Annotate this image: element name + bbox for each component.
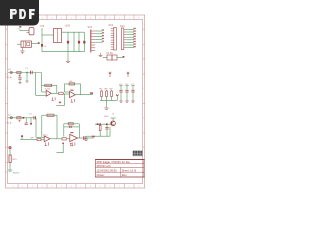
svg-text:AGND: AGND	[13, 171, 20, 174]
fuse F1	[103, 52, 125, 60]
svg-text:F1 5A: F1 5A	[107, 52, 114, 55]
ground C10	[26, 81, 29, 82]
svg-text:SV3: SV3	[120, 25, 125, 28]
svg-text:3: 3	[42, 17, 44, 19]
resistor R1	[17, 71, 21, 76]
label IC1B	[70, 90, 73, 91]
svg-text:IN_B: IN_B	[7, 123, 12, 125]
title block text	[97, 160, 137, 177]
svg-text:Drawn:: Drawn:	[97, 173, 105, 177]
svg-text:IN_A: IN_A	[7, 76, 12, 79]
resistor R4 feedback	[69, 83, 75, 85]
wire opamp3 input drop	[36, 118, 44, 138]
svg-text:T1: T1	[112, 114, 115, 116]
svg-text:6: 6	[71, 17, 73, 19]
wire opamp2 output	[75, 94, 93, 96]
svg-text:C1: C1	[25, 68, 29, 70]
wire buzzer out	[17, 42, 40, 44]
wire bus gnd stub	[67, 52, 69, 61]
svg-text:8: 8	[90, 17, 92, 19]
svg-text:R10: R10	[105, 116, 110, 118]
supply +5V arrow left	[109, 72, 111, 77]
connector SV2	[109, 24, 117, 50]
resistor R5	[17, 117, 21, 122]
connector SV3	[120, 25, 126, 50]
svg-text:X2: X2	[8, 114, 11, 116]
frame column labels	[6, 17, 145, 188]
terminal X1	[10, 71, 12, 73]
terminal X3	[9, 146, 11, 148]
ground bus	[66, 61, 70, 62]
resistor R15	[9, 155, 17, 163]
ground SV1	[99, 53, 103, 57]
capacitor C8	[105, 124, 108, 136]
svg-text:Rev:: Rev:	[122, 173, 128, 177]
op-amp IC1D	[70, 134, 78, 141]
wire SV3 nets	[126, 29, 134, 47]
node label OUT_B	[92, 136, 95, 138]
node label OUT_A	[90, 92, 93, 94]
diode D2	[78, 41, 80, 44]
svg-text:C4: C4	[44, 46, 48, 48]
supply pin stub	[62, 143, 64, 145]
svg-text:X1: X1	[8, 69, 11, 71]
wire opamp4 output	[78, 137, 84, 139]
capacitor C15 output	[83, 136, 85, 139]
wire X3 down	[9, 149, 11, 155]
ground C6	[125, 101, 128, 102]
PDF badge	[0, 0, 39, 26]
frame column ticks top margin	[18, 15, 134, 20]
resistor R6 feedback	[47, 114, 54, 116]
supply pins IC1B	[71, 99, 75, 102]
junction lower input	[21, 135, 23, 137]
connector SV1	[88, 26, 96, 53]
wire feedback loop A2	[64, 84, 80, 95]
svg-text:Sheet: 1/1 B: Sheet: 1/1 B	[122, 168, 137, 172]
op-amp IC1C	[44, 136, 50, 142]
wire ground bus	[42, 51, 84, 53]
ground resistor rail	[104, 108, 108, 109]
svg-text:5: 5	[61, 17, 63, 19]
ground C5	[119, 101, 122, 102]
wire opamp3 output	[50, 138, 62, 140]
frame column ticks bottom margin	[18, 184, 134, 189]
wire resistor rail	[100, 96, 117, 107]
wire mic input	[18, 26, 27, 31]
junction rail B	[23, 117, 25, 119]
svg-text:7: 7	[80, 17, 82, 19]
svg-text:IC1C: IC1C	[43, 134, 48, 136]
microphone MIC1	[27, 28, 35, 35]
capacitor C3 series	[34, 116, 36, 119]
resistor R9	[110, 88, 114, 100]
svg-text:9: 9	[100, 17, 102, 19]
frame row ticks right margin	[143, 45, 145, 163]
wire into opamp4	[66, 138, 70, 140]
ground C7	[131, 101, 134, 102]
wire transistor top	[111, 118, 116, 121]
diode D3	[83, 41, 85, 44]
supply mark riser	[116, 94, 118, 96]
cadsoft logo bitmap	[133, 150, 143, 156]
op-amp IC1B	[70, 91, 76, 97]
wire input rail B	[8, 117, 36, 119]
wire transistor base rail	[95, 123, 111, 125]
svg-text:IC1A: IC1A	[45, 88, 50, 91]
capacitor C13 to gnd	[30, 118, 32, 125]
capacitor C11 mark	[59, 102, 61, 104]
wire feedback loop A1	[42, 85, 57, 93]
svg-text:0: 0	[109, 17, 111, 19]
junction dots base rail	[97, 123, 108, 125]
svg-text:IC2: IC2	[41, 25, 45, 28]
wire transistor emitter rail	[86, 127, 110, 139]
resistor R11	[99, 124, 101, 136]
title block table	[95, 159, 144, 177]
wire output B end	[85, 137, 93, 139]
svg-text:R15: R15	[13, 159, 18, 161]
op-amp IC1A	[46, 90, 51, 96]
svg-text:C3: C3	[29, 113, 33, 115]
wire feedback loop B2	[64, 124, 80, 138]
label IC1D	[70, 132, 73, 133]
wire feedback loop B1	[42, 115, 57, 139]
supply arrow mark	[70, 143, 72, 146]
capacitor C4	[41, 44, 47, 48]
resistor R13 interstage	[62, 138, 66, 140]
capacitor C10 to gnd	[26, 72, 28, 81]
diode D1	[67, 41, 69, 44]
svg-text:+12V: +12V	[65, 25, 71, 28]
wire input rail A	[8, 72, 42, 74]
capacitor C7	[131, 84, 135, 101]
resistor R12	[37, 139, 41, 141]
wire opamp1 output	[51, 92, 59, 94]
svg-text:11/04/2002 09:55: 11/04/2002 09:55	[97, 168, 118, 172]
wire lower input B	[20, 136, 44, 139]
svg-text:SV1: SV1	[88, 26, 93, 29]
wire regulator input	[42, 28, 54, 52]
supply pins IC1C	[45, 142, 49, 145]
wire SV1 nets	[95, 31, 102, 42]
resistor R14 feedback	[68, 123, 73, 125]
frame row ticks left margin	[6, 45, 8, 163]
wire interstage node	[56, 94, 69, 105]
svg-text:R4: R4	[70, 81, 74, 83]
wire opamp1 input drop	[42, 73, 47, 93]
svg-text:4: 4	[51, 17, 53, 19]
frame outer border	[6, 15, 145, 188]
svg-text:SV2: SV2	[109, 24, 114, 27]
svg-text:3: 3	[138, 17, 140, 19]
node labels SV3	[133, 28, 135, 48]
ground buzzer	[20, 51, 24, 54]
svg-text:NF: NF	[31, 137, 35, 139]
transistor T1	[111, 121, 116, 126]
buzzer SP1	[21, 41, 32, 47]
capacitor C5	[119, 84, 123, 101]
wire regulator output bus	[62, 32, 85, 52]
capacitor C12 to gnd	[25, 118, 28, 125]
wire bias drop A	[36, 73, 47, 96]
regulator IC2	[41, 25, 62, 43]
svg-text:PROFI.sch: PROFI.sch	[97, 164, 112, 168]
ground emitter rail	[84, 139, 88, 140]
supply pins IC1A	[51, 97, 55, 100]
ground C9	[19, 83, 22, 84]
svg-text:2: 2	[129, 17, 131, 19]
capacitor C2 series	[31, 71, 33, 74]
capacitor C6	[125, 84, 129, 101]
supply +5V arrow right	[127, 72, 129, 77]
capacitor C14 feedback	[70, 126, 72, 128]
wire buzzer gnd	[22, 47, 24, 50]
frame inner border	[8, 20, 143, 184]
capacitor C9 to gnd	[18, 74, 21, 83]
wire opamp supply return	[57, 145, 64, 153]
wire R15 down	[9, 163, 11, 170]
resistor R8	[105, 88, 109, 100]
resistor R2 feedback	[45, 84, 52, 86]
ground AGND	[8, 170, 12, 171]
terminal X2	[10, 117, 12, 119]
node labels SV1	[102, 29, 104, 41]
svg-text:1: 1	[119, 17, 121, 19]
resistor R7	[100, 88, 104, 100]
resistor R3 interstage	[59, 92, 63, 94]
supply pins IC1D	[71, 142, 75, 145]
